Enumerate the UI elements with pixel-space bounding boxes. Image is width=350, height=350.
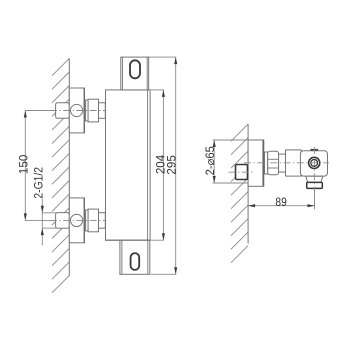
- svg-text:89: 89: [275, 197, 286, 210]
- svg-text:295: 295: [166, 155, 179, 174]
- svg-text:150: 150: [17, 155, 30, 174]
- svg-text:2-⌀65: 2-⌀65: [205, 146, 217, 175]
- svg-text:2-G1/2: 2-G1/2: [33, 167, 46, 199]
